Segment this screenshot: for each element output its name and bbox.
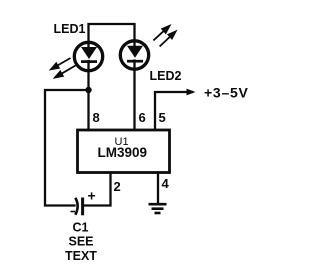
svg-text:4: 4 [162,176,170,191]
wire LED1 cathode to pin 8 [87,61,89,130]
svg-text:SEE: SEE [69,235,94,249]
LED1 emission arrows [51,58,76,78]
wire LED2 cathode to pin 6 [133,61,135,131]
svg-text:2: 2 [114,179,121,194]
LED LED1 [51,42,103,77]
svg-text:LM3909: LM3909 [98,145,148,160]
node junction dot at pin 8 rail [85,87,91,93]
svg-text:+3–5V: +3–5V [204,85,249,101]
wire top rail between LED1 and LED2 [89,24,135,48]
svg-text:LED2: LED2 [150,69,182,83]
svg-text:8: 8 [93,110,100,125]
svg-text:C1: C1 [73,221,89,235]
svg-text:6: 6 [139,110,146,125]
capacitor C1 [71,188,96,216]
wire pin 5 to +V rail [155,92,192,130]
wire junction to left rail down to capacitor [45,90,89,206]
wire capacitor to pin 2 [84,173,111,206]
svg-text:5: 5 [159,110,166,125]
+V supply arrow [187,89,196,96]
wire pin 4 to ground [157,173,159,204]
svg-text:+: + [88,188,96,204]
LED2 emission arrows [153,26,175,47]
ground [149,204,167,213]
svg-text:LED1: LED1 [54,22,86,36]
LED LED2 [120,26,175,69]
svg-text:TEXT: TEXT [65,249,97,263]
op-amp IC U1 LM3909 box [78,130,170,173]
